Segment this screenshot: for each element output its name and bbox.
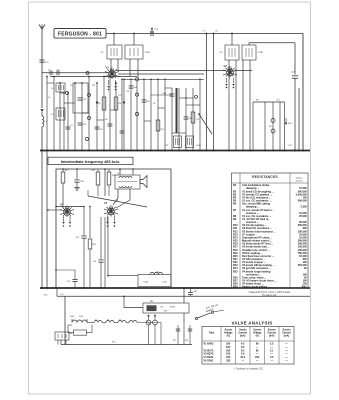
svg-text:(mA): (mA) [240,334,246,337]
wire anode bus [116,70,226,72]
svg-text:5,300: 5,300 [301,206,308,209]
svg-text:(mA): (mA) [269,334,275,337]
svg-text:L13: L13 [160,307,163,309]
smoothing choke L11 [150,272,163,274]
svg-text:Intermediate frequency 465 kc/: Intermediate frequency 465 kc/s. [61,160,120,164]
svg-text:¹ Cathode to chassis, DC.: ¹ Cathode to chassis, DC. [234,367,264,371]
voltage adjustment resistor R28 [74,330,87,335]
wire rectifier input [123,296,125,307]
volume control potentiometer [271,119,275,123]
svg-text:R14: R14 [44,295,47,297]
wire jog e [158,107,165,109]
resistor R6 [156,120,160,131]
ground C26 [74,187,79,189]
wire IFT2 risers [228,60,230,151]
wire second rail [249,42,295,44]
svg-text:FUSE: FUSE [170,307,176,309]
svg-text:X2: X2 [95,320,97,322]
switch S7 contact [135,112,138,115]
resistor R22 [89,207,91,239]
wire V4 grid drop [107,217,109,276]
capacitor C30 [78,122,83,124]
valve V1 frequency changer [109,71,116,78]
svg-text:R5: R5 [153,103,155,105]
wire link b [64,102,75,104]
transformer winding c [106,321,114,323]
svg-text:400¹: 400¹ [302,285,307,289]
capacitor C18 [56,269,75,271]
svg-text:25,000: 25,000 [299,215,307,218]
switch S8 contact [195,95,198,98]
wire V4 cathode drop b [104,217,106,288]
wire HT rail top [106,33,303,35]
svg-text:RESISTANCES: RESISTANCES [252,175,278,179]
capacitor C13 on HT rail [151,29,153,34]
capacitor C14 in aerial lead [39,59,44,61]
capacitor C3B [184,116,189,118]
capacitor C29 [83,207,85,236]
svg-text:R26: R26 [185,340,188,342]
svg-text:Values: Values [296,178,303,180]
mains filter box [138,275,171,287]
svg-text:Heater circuit ballast ...: Heater circuit ballast ... [242,286,270,289]
wire L9 stems [119,169,121,175]
svg-text:C3B: C3B [188,118,193,120]
wire detector bus [253,101,285,103]
capacitor C33 [108,123,113,125]
screened lead [176,88,178,133]
wire lamp drop c [160,323,162,345]
svg-text:V2: V2 [224,64,228,68]
IF transformer IFT1 primary [107,45,122,59]
valve V3 detector triode [64,209,71,216]
junction blob b [123,101,125,103]
svg-text:V1 6A8G: V1 6A8G [204,342,214,345]
wire HT rail right drop [302,34,304,151]
resistor R8 [191,112,195,123]
transformer winding b [94,321,102,323]
junction blob a [96,101,98,103]
svg-text:(V): (V) [227,334,230,337]
pilot lamp b [153,320,158,325]
switch S2 contact [66,92,69,95]
switch S6 contact [135,93,138,96]
mains switch S22 [195,317,197,319]
wire jog f [144,120,151,122]
audio partition wire [104,169,106,196]
wire link c [82,112,89,114]
cathode stubs V1 [108,80,110,85]
transformer winding d [118,321,126,323]
svg-text:R3: R3 [105,119,107,121]
cathode arrows V4 [107,216,109,221]
svg-text:FERGUSON - 801: FERGUSON - 801 [58,32,102,38]
wire AVC line left [41,151,43,289]
svg-text:75 mains coil: 75 mains coil [262,294,277,297]
wire IFT1 stems [113,34,115,46]
aerial arrow [40,109,43,112]
valve V2 IF amplifier [227,69,234,76]
wire winding links [87,322,94,324]
svg-text:V1: V1 [106,66,110,70]
valve analysis table frame [202,327,294,365]
coil L7 can [174,136,182,148]
AVC arrow [285,123,288,125]
earth return line [56,288,58,296]
wire grid bus b [50,76,137,78]
svg-text:(V): (V) [256,334,259,337]
capacitor C26 [76,169,78,179]
trimmer box C32 [73,83,88,113]
output transformer L9 [115,175,140,189]
heater droppers [177,325,179,345]
junction dots riser tops [53,76,55,78]
svg-text:C15A: C15A [143,281,148,284]
svg-text:C11: C11 [92,85,95,87]
svg-text:R27: R27 [164,311,167,313]
capacitor C1 [49,70,51,75]
wire aerial to chassis [41,127,43,151]
resistances table frame [232,173,309,288]
wire jog c [179,97,193,99]
wire screen feed risers [206,34,208,151]
resistor R1 [102,97,106,110]
capacitor C36 [190,288,192,292]
svg-text:R29: R29 [233,286,238,289]
svg-text:C21: C21 [126,91,129,93]
wire detector risers [252,102,254,151]
chassis bus lower [40,287,310,289]
svg-text:V4: V4 [104,201,108,205]
wire V3 grid [62,205,64,208]
wire V2 to detector [234,70,252,72]
resistor R13 [96,172,100,185]
audio enclosure [56,169,171,288]
svg-text:C14: C14 [60,294,63,296]
mains transformer primary taps [72,320,87,323]
svg-text:C14B: C14B [196,145,201,147]
svg-text:(ohms): (ohms) [296,180,303,182]
wire link f [110,109,116,111]
svg-text:325: 325 [226,360,231,363]
chassis bus upper [40,150,310,152]
coil L5 [56,108,65,120]
svg-text:VALVE ANALYSIS: VALVE ANALYSIS [231,320,272,325]
wire link a [60,92,64,94]
svg-text:C14A: C14A [145,51,151,54]
svg-text:C16A: C16A [258,51,264,54]
switch S3 contact [88,94,91,97]
svg-text:C17A: C17A [162,281,167,284]
svg-text:C23: C23 [160,129,163,131]
svg-text:C30: C30 [83,124,86,126]
svg-text:C12: C12 [70,85,73,87]
rectifier V5 box [143,303,189,313]
title box FERGUSON - 801 [54,29,106,39]
capacitor C36a [142,99,147,101]
valve V4 output tetrode [108,208,115,215]
resistor R4 [114,97,118,110]
wire IF block risers [123,79,125,150]
wire V3 anode link [56,206,84,208]
wire RF block risers [46,77,48,151]
capacitor C3A [170,93,175,95]
coil L4 [56,83,65,92]
wire grid bus d [118,73,204,75]
coil L8 can [186,136,194,148]
svg-text:Tube: Tube [209,332,215,335]
capacitor C35 [120,130,125,132]
switch S2 arm [199,114,212,134]
capacitor C31 [95,126,100,128]
svg-text:C27: C27 [196,119,199,121]
coil L1 [41,112,43,116]
svg-text:X3: X3 [107,320,109,322]
wire grid bus a [42,72,108,74]
wire grid bus c [124,78,204,80]
loudspeaker [140,176,147,188]
svg-text:C3A: C3A [162,92,167,95]
wire link e [47,82,54,84]
resistor R17 [62,169,64,172]
svg-text:(mA): (mA) [284,334,290,337]
switch S5 contact [135,78,138,81]
svg-text:C6: C6 [48,97,50,99]
svg-text:100¹: 100¹ [226,345,231,349]
rectifier arrows [147,314,150,316]
capacitor C34 [129,85,134,87]
wire right drop to C24 [294,43,296,75]
wire V4 screen [129,189,131,200]
wire V4 cathode drop a [100,217,102,259]
transformer winding e [129,321,137,323]
capacitor C3 [66,126,71,128]
switch S4b contact [86,138,89,141]
resistor R11 [107,172,111,185]
mains plug box [55,332,69,340]
wire jog b [151,94,172,96]
label intermediate frequency [48,157,133,164]
svg-text:P.U.: P.U. [269,126,273,128]
wire link d [97,119,104,121]
IF transformer IFT1 secondary [125,45,143,59]
svg-text:C37: C37 [165,145,168,147]
svg-text:C22: C22 [118,95,121,97]
IF transformer IFT2 primary [225,45,239,60]
wire jog g [172,132,186,134]
switch S4 contact [88,117,91,120]
cathode arrows V3 [63,216,65,221]
svg-text:V5 5Z4G: V5 5Z4G [204,360,214,363]
wire AVC riser [298,88,300,151]
cathode stubs V2 [226,78,228,83]
pilot lamp a [146,320,151,325]
svg-text:X4: X4 [119,320,121,322]
wire jog d [186,104,200,106]
wire mains left [64,296,66,344]
wire jog a [165,87,172,89]
aerial A1 [39,25,45,30]
switch S1 contact [86,72,89,75]
capacitor C16 [98,259,103,261]
wire IFT2 stems [231,34,233,46]
svg-text:500,000: 500,000 [298,200,308,203]
wire earth line left [46,151,48,289]
wire grid coupling diagonal [88,196,147,207]
wire HT distribution [108,275,138,277]
capacitor C2 [56,70,58,75]
IF transformer IFT2 secondary [242,45,256,60]
svg-text:R25: R25 [173,340,176,342]
wire rectifier riser [183,288,185,303]
wire V3 grid feed [48,209,62,211]
svg-text:R25: R25 [233,270,238,273]
wire V4 anode [117,189,119,198]
wire mains bottom [61,344,192,346]
